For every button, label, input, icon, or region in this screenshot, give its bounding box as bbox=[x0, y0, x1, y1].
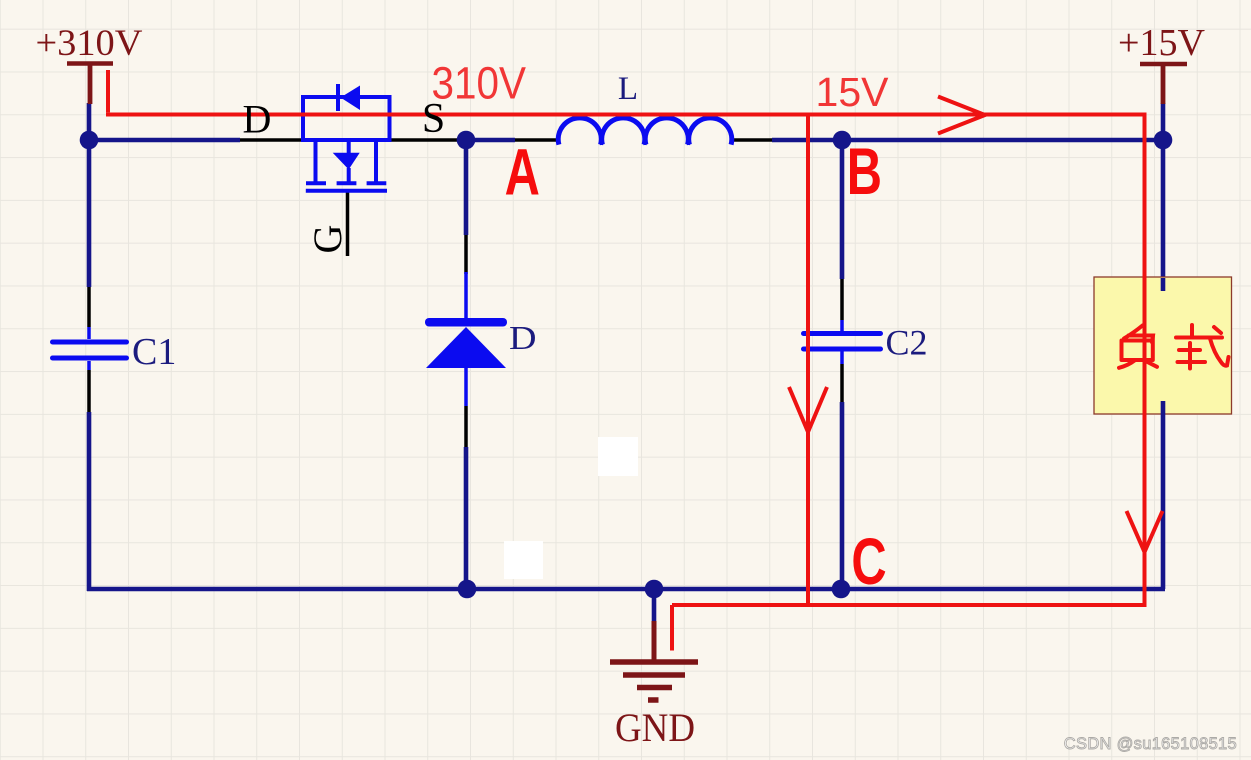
svg-text:A: A bbox=[505, 135, 540, 209]
svg-text:+15V: +15V bbox=[1118, 22, 1206, 64]
svg-text:310V: 310V bbox=[432, 58, 527, 109]
svg-text:B: B bbox=[847, 135, 882, 209]
svg-text:C2: C2 bbox=[886, 323, 928, 363]
svg-text:L: L bbox=[618, 71, 638, 107]
svg-text:15V: 15V bbox=[816, 69, 890, 115]
svg-text:C1: C1 bbox=[132, 331, 176, 373]
svg-text:+310V: +310V bbox=[36, 23, 143, 64]
svg-text:GND: GND bbox=[615, 705, 695, 750]
svg-text:G: G bbox=[305, 225, 350, 254]
svg-text:D: D bbox=[243, 97, 272, 142]
svg-text:D: D bbox=[509, 320, 537, 357]
svg-text:C: C bbox=[851, 525, 886, 599]
